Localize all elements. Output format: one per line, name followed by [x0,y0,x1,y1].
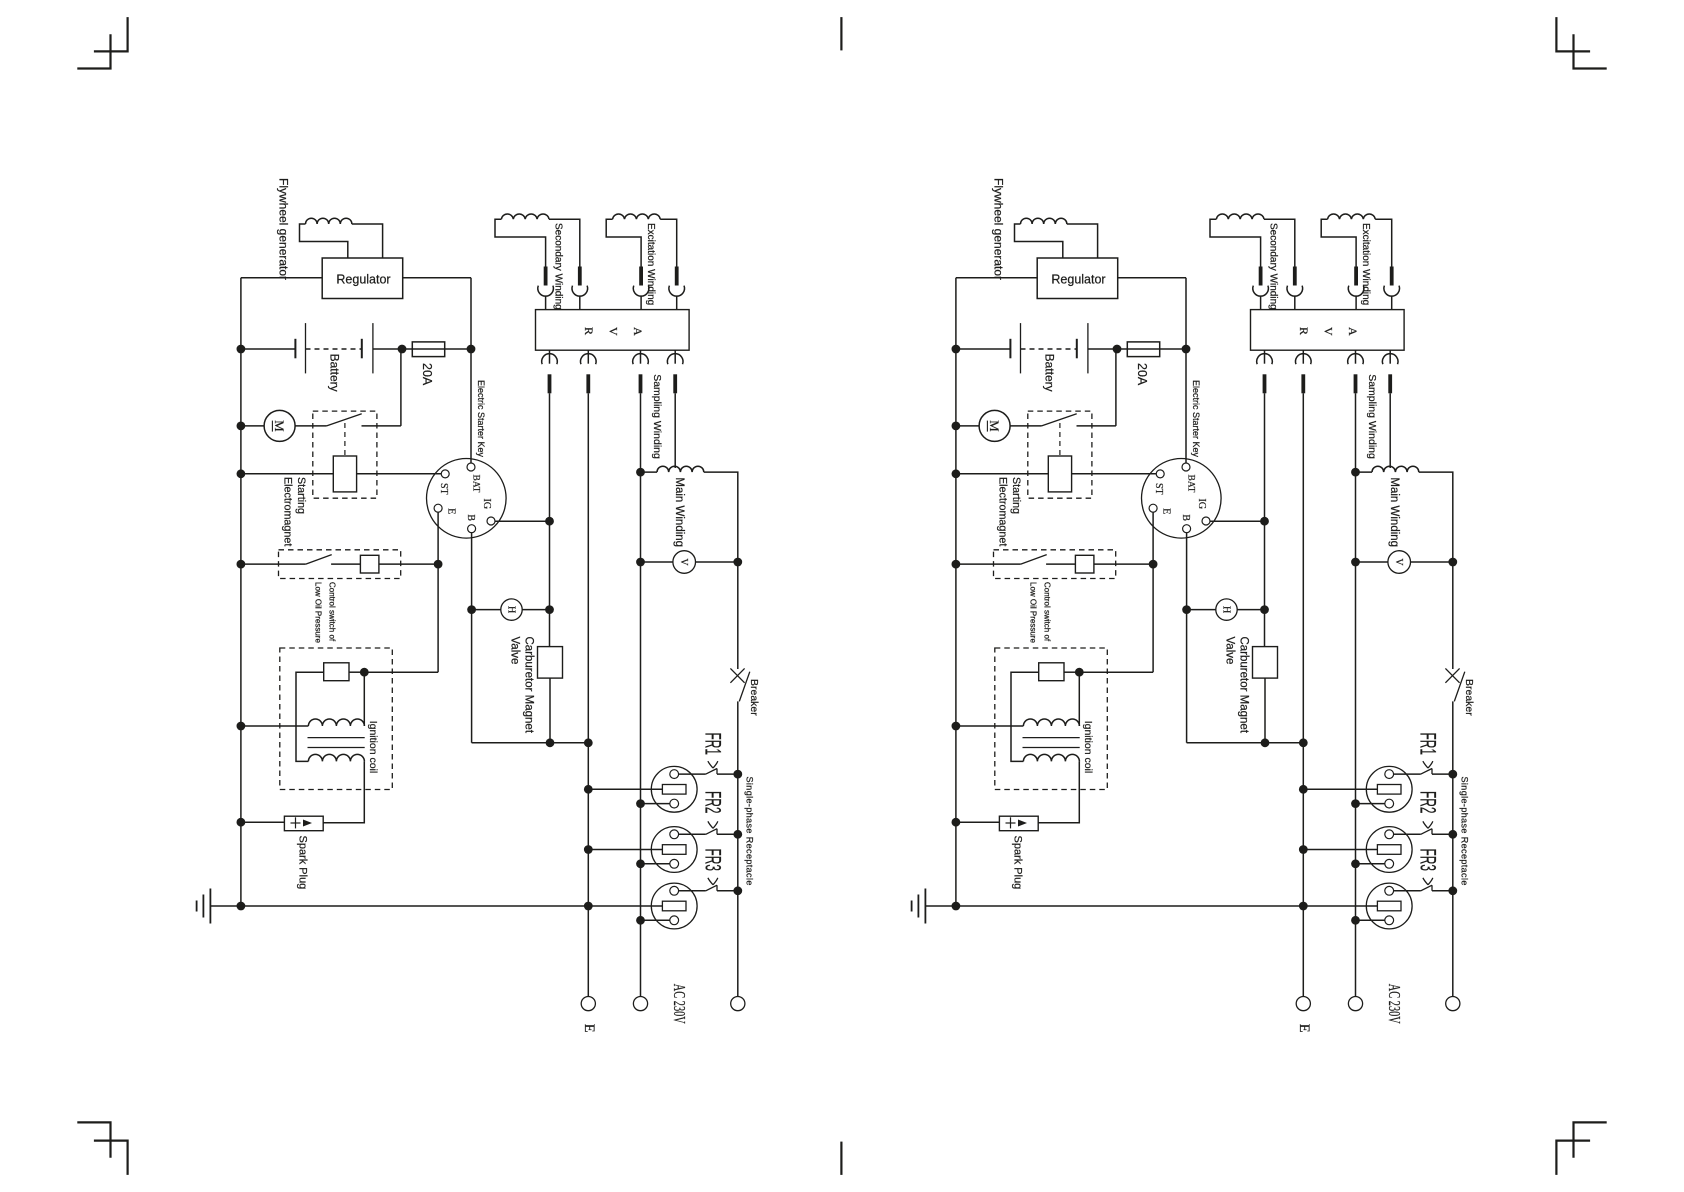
receptacle X1 top pin (left) [670,770,679,779]
svg-text:R: R [1297,327,1311,335]
connector pin J1b (right) [1293,267,1297,286]
wire: FR3 to bus (left) [717,890,738,892]
key terminal IG (left) [487,517,495,525]
svg-text:Battery: Battery [1043,354,1057,392]
wire: bus to relay coil (left) [241,473,333,475]
svg-text:Electromagnet: Electromagnet [281,477,293,546]
junction: neutral/X1 node (right) [1351,799,1360,808]
key terminal B (right) [1183,525,1191,533]
junction: condenser/primary node (right) [1075,668,1084,677]
connector pin J3b (right) [1301,374,1305,393]
receptacle X2 slot pin (right) [1377,845,1401,855]
junction: valve/rail node (left) [546,738,555,747]
fuse F1 20A (right) [1127,342,1159,357]
receptacle X2 body (left) [651,827,697,873]
wire: ground rail (right) [925,905,1377,907]
connector socket J3c (right) [1348,354,1364,365]
receptacle X2 bottom pin (right) [1385,859,1394,868]
wire: oil switch to sensor box (right) [1046,563,1075,565]
svg-text:Electric Starter Key: Electric Starter Key [1191,380,1201,458]
connector socket J3b (right) [1296,354,1312,365]
junction: bus/ground row (right) [952,902,961,911]
connector socket J1b (left) [572,286,588,297]
wire: sampling tap vertical (right) [1389,393,1391,468]
wire: AVR to J3a (right) [1264,350,1266,364]
inductor L3 main winding coil (right) [1372,466,1419,472]
thermal contact FR1 fork (left) [708,761,718,768]
receptacle X3 top pin (left) [670,886,679,895]
svg-text:Control switch of: Control switch of [328,582,337,642]
label: M motor (right) [987,420,1002,432]
connector pin J2a (left) [639,267,643,286]
wire: FR2 to bus (left) [717,833,738,835]
starting electromagnet K1 dashed enclosure (left) [313,411,377,498]
thermal contact FR2 blade (left) [706,829,717,835]
wire: bus to starter motor (right) [956,425,979,427]
wire: H right (right) [1237,609,1264,611]
relay K1 coil box (left) [333,456,356,492]
wire: AVR to J3b (left) [587,350,589,364]
wire: excitation coil right lead (left) [660,219,677,266]
junction: neutral/X3 node (right) [1351,916,1360,925]
transformer T2 primary winding (right) [1023,719,1079,726]
wire: excitation coil right lead (right) [1375,219,1392,266]
receptacle X3 body (left) [651,883,697,929]
junction: neutral/X2 node (left) [636,859,645,868]
breaker S3 blade (left) [739,672,750,702]
svg-text:H: H [1221,606,1232,613]
wire: condenser right lead (right) [1064,671,1079,673]
wire: FR1 to bus (right) [1432,773,1453,775]
crop mark bottom-right [1556,1141,1590,1175]
junction: neutral/X2 node (right) [1351,859,1360,868]
wire: regulator left to bus (left) [241,277,322,279]
wire: B terminal drop (right) [1186,532,1188,743]
relay K1 coil box (right) [1048,456,1071,492]
terminal N circle (left) [633,997,647,1011]
junction: V left node (right) [1351,558,1360,567]
connector socket J3b (left) [581,354,597,365]
svg-text:M: M [272,420,287,432]
junction: sense/X2 node (left) [584,845,593,854]
junction: sense/ground node (left) [584,902,593,911]
receptacle X1 bottom pin (right) [1385,799,1394,808]
wire: bus to ignition primary (left) [241,725,309,727]
inductor T1 flywheel generator coil (left) [306,218,352,224]
svg-text:FR1: FR1 [1415,733,1440,756]
wire: secondary to spark plug (left) [323,761,364,822]
svg-text:FR3: FR3 [700,849,725,872]
AVR U2 box (left) [536,310,690,351]
voltmeter V1 circle (right) [1388,551,1411,574]
svg-text:Single-phase Receptacle: Single-phase Receptacle [745,777,755,886]
junction: FR3/bus node (right) [1448,886,1457,895]
svg-text:Main Winding: Main Winding [1388,477,1400,547]
svg-text:Electric Starter Key: Electric Starter Key [476,380,486,458]
wire: H left (left) [472,609,501,611]
wire: main winding left stub (right) [1356,471,1373,473]
wire: right vertical to BAT terminal (left) [470,278,472,464]
svg-text:FR3: FR3 [1415,849,1440,872]
spark plug gap electrode (left) [291,817,313,828]
svg-text:FR2: FR2 [700,791,725,814]
receptacle X3 slot pin (right) [1377,901,1401,911]
connector pin J3d (right) [1388,374,1392,393]
receptacle X2 bottom pin (left) [670,859,679,868]
connector pin J1a (right) [1259,267,1263,286]
wire: regulator right (left) [403,277,471,279]
crop mark top-right [1556,17,1590,51]
connector socket J1a (right) [1253,286,1269,297]
wire: AVR to J3d (right) [1389,350,1391,364]
starting electromagnet K1 dashed enclosure (right) [1028,411,1092,498]
thermal contact FR3 fork (right) [1423,878,1433,885]
connector pin J3d (left) [673,374,677,393]
svg-text:Secondary Winding: Secondary Winding [553,223,564,310]
crop mark top-center [840,17,842,50]
connector pin J3c (left) [639,374,643,393]
svg-text:Carburetor Magnet: Carburetor Magnet [1238,637,1250,734]
svg-text:Carburetor Magnet: Carburetor Magnet [523,637,535,734]
wire: bus to battery (left) [241,348,296,350]
wire: motor to relay contact (left) [295,425,327,427]
wire: battery to fuse node (right) [1088,348,1127,350]
wire: bus to relay coil (right) [956,473,1048,475]
svg-text:E: E [581,1024,597,1033]
wire: fuse to key node (right) [1160,348,1186,350]
svg-text:ST: ST [438,483,449,495]
junction: main winding left node (right) [1351,468,1360,477]
wire: neutral to X2 (left) [641,863,670,865]
wire: left bus vertical (left) [240,278,242,906]
connector socket J2b (left) [669,286,685,297]
wire: lower pin vertical (right) [1355,393,1357,996]
connector pin J1a (left) [544,267,548,286]
junction: neutral/X1 node (left) [636,799,645,808]
junction: bus/oil row (right) [952,560,961,569]
junction: rail/sense node (right) [1299,738,1308,747]
thermal contact FR2 fork (left) [708,821,718,828]
thermal contact FR3 blade (left) [706,885,717,891]
voltmeter V1 circle (left) [673,551,696,574]
wire: secondary coil left lead (right) [1210,219,1261,266]
junction: IG node (left) [545,517,554,526]
carburetor magnet valve Y1 box (right) [1253,647,1278,679]
junction: FR2/bus node (right) [1448,830,1457,839]
breaker S3 blade (right) [1454,672,1465,702]
svg-text:AC 230V: AC 230V [1385,984,1404,1024]
spark plug gap electrode (right) [1006,817,1028,828]
junction: fuse/BAT node (right) [1182,345,1191,354]
key terminal E (right) [1149,504,1157,512]
wire: condenser to primary (left) [363,672,365,726]
wire: neutral to X3 (left) [641,919,670,921]
wire: bus to spark plug (right) [956,821,1000,823]
receptacle X1 slot pin (left) [662,785,686,795]
svg-text:B: B [465,514,476,521]
junction: sense/ground node (right) [1299,902,1308,911]
wire: relay coil to ST terminal (left) [357,473,442,475]
svg-text:B: B [1180,514,1191,521]
wire: sense to X2 slot (right) [1303,849,1377,851]
oil switch S2 blade (right) [1021,555,1047,565]
junction: E/oil node (right) [1149,560,1158,569]
wire: battery dashed middle (right) [1021,348,1077,350]
junction: FR2/bus node (left) [733,830,742,839]
wire: battery to fuse node (left) [373,348,412,350]
wire: valve bottom lead (left) [549,678,551,743]
wire: V left (left) [641,561,673,563]
connector socket J3a (right) [1257,354,1273,365]
transformer T2 core (left) [308,738,365,748]
wire: riser to battery node (left) [400,349,402,426]
wire: sense vertical (left) [587,393,589,996]
connector socket J1b (right) [1287,286,1303,297]
connector socket J3d (left) [667,354,683,365]
wire: relay contact to riser (right) [1077,425,1116,427]
terminal L circle (left) [731,997,745,1011]
wire: neutral to X1 (left) [641,803,670,805]
junction: IG node (right) [1260,517,1269,526]
svg-text:Ignition coil: Ignition coil [1082,721,1094,774]
battery BT1 cell1 short plate (left) [294,339,296,359]
wire: V right (left) [696,561,738,563]
wire: bus to spark plug (left) [241,821,285,823]
wire: engine stop rail (right) [1187,742,1304,744]
wire: H right (left) [522,609,549,611]
connector socket J3c (left) [633,354,649,365]
wire: to ignition condenser (right) [1079,671,1153,673]
connector pin J2a (right) [1354,267,1358,286]
junction: condenser/primary node (left) [360,668,369,677]
wire: sense to X2 slot (left) [588,849,662,851]
wire: fuse to key node (left) [445,348,471,350]
svg-text:V: V [1322,327,1336,336]
wire: neutral to X1 (right) [1356,803,1385,805]
wire: engine stop rail (left) [472,742,589,744]
inductor L3 main winding coil (left) [657,466,704,472]
svg-text:IG: IG [1196,499,1207,510]
junction: sense/X1 node (left) [584,785,593,794]
wire: motor to relay contact (right) [1010,425,1042,427]
wire: V right (right) [1411,561,1453,563]
key terminal E (left) [434,504,442,512]
wire: generator coil right lead (left) [352,224,383,258]
junction: FR1/bus node (right) [1448,770,1457,779]
wire: sense to X1 slot (right) [1303,788,1377,790]
low oil pressure dashed enclosure (left) [279,550,401,579]
wire: generator coil right lead (right) [1067,224,1098,258]
junction: sense/X1 node (right) [1299,785,1308,794]
relay K1 actuation link (right) [1059,423,1061,456]
svg-text:V: V [1393,558,1404,566]
connector pin J3a (left) [548,374,552,393]
low oil pressure dashed enclosure (right) [994,550,1116,579]
junction: bus/ignition row (left) [237,722,246,731]
receptacle X3 bottom pin (right) [1385,916,1394,925]
svg-text:Flywheel generator: Flywheel generator [992,178,1006,280]
connector socket J3d (right) [1382,354,1398,365]
thermal contact FR1 blade (left) [706,769,717,775]
oil pressure sensor box (right) [1075,555,1094,573]
wire: X2 to FR2 (left) [679,833,706,835]
wire: J2b to AVR (right) [1391,296,1393,310]
battery BT1 cell2 short plate (left) [361,339,363,359]
indicator H1 circle (left) [501,599,522,620]
wire: main winding to breaker bus (left) [704,472,738,669]
svg-text:Main Winding: Main Winding [673,477,685,547]
battery BT1 cell1 long plate (left) [305,323,307,373]
terminal E circle (right) [1296,997,1310,1011]
connector pin J1b (left) [578,267,582,286]
battery BT1 cell2 long plate (left) [372,323,374,373]
wire: FR3 to bus (right) [1432,890,1453,892]
wire: sensor to E-node (right) [1094,563,1153,565]
wire: bus to ignition primary (right) [956,725,1024,727]
junction: sense/X2 node (right) [1299,845,1308,854]
wire: X3 to FR3 (left) [679,890,706,892]
junction: bus/ground row (left) [237,902,246,911]
wire: J1a to AVR (right) [1260,296,1262,310]
svg-text:FR2: FR2 [1415,791,1440,814]
svg-text:BAT: BAT [1186,475,1196,493]
wire: IG terminal link (right) [1210,520,1265,522]
key terminal IG (right) [1202,517,1210,525]
junction: valve/H node (right) [1260,605,1269,614]
junction: bus/battery row (left) [237,345,246,354]
junction: fuse/BAT node (left) [467,345,476,354]
svg-text:V: V [607,327,621,336]
wire: secondary to spark plug (right) [1038,761,1079,822]
junction: main winding left node (left) [636,468,645,477]
wire: J2a to AVR (right) [1355,296,1357,310]
svg-text:Sampling Winding: Sampling Winding [1366,374,1378,459]
svg-text:A: A [1346,327,1360,336]
wire: AVR to J3b (right) [1302,350,1304,364]
wire: IG feed vertical (right) [1264,393,1266,646]
svg-text:R: R [582,327,596,335]
wire: secondary coil left lead (left) [495,219,546,266]
junction: E/oil node (left) [434,560,443,569]
thermal contact FR3 fork (left) [708,878,718,885]
junction: B/H node (right) [1182,605,1191,614]
wire: neutral to X3 (right) [1356,919,1385,921]
wire: E terminal drop (left) [437,512,439,564]
regulator U1 box (right) [1037,258,1118,299]
junction: bus/oil row (left) [237,560,246,569]
connector pin J3a (right) [1263,374,1267,393]
battery BT1 cell1 short plate (right) [1009,339,1011,359]
wire: ground rail (left) [210,905,662,907]
svg-text:Starting: Starting [295,477,307,514]
wire: battery dashed middle (left) [306,348,362,350]
crop mark bottom-center [840,1142,842,1175]
key terminal BAT (left) [467,463,475,471]
receptacle X2 top pin (right) [1385,830,1394,839]
thermal contact FR1 blade (right) [1421,769,1432,775]
wire: sense vertical (right) [1302,393,1304,996]
condenser C1 box (left) [324,663,349,681]
wire: left bus vertical (right) [955,278,957,906]
wire: FR1 to bus (left) [717,773,738,775]
receptacle X1 body (right) [1366,766,1412,812]
wire: valve bottom lead (right) [1264,678,1266,743]
svg-text:Secondary Winding: Secondary Winding [1268,223,1279,310]
junction: valve/H node (left) [545,605,554,614]
thermal contact FR1 fork (right) [1423,761,1433,768]
svg-text:E: E [1161,508,1172,514]
svg-text:Spark Plug: Spark Plug [1012,836,1024,890]
breaker S3 cross mark (right) [1445,668,1459,682]
svg-text:Breaker: Breaker [1463,679,1475,716]
wire: right vertical to BAT terminal (right) [1185,278,1187,464]
transformer T2 secondary winding (right) [1023,754,1079,761]
thermal contact FR2 blade (right) [1421,829,1432,835]
svg-text:Spark Plug: Spark Plug [297,836,309,890]
receptacle X2 top pin (left) [670,830,679,839]
receptacle X3 body (right) [1366,883,1412,929]
receptacle X1 top pin (right) [1385,770,1394,779]
ground symbol (left) [197,889,211,924]
receptacle X3 top pin (right) [1385,886,1394,895]
connector socket J2b (right) [1384,286,1400,297]
relay K1 contact blade (right) [1042,414,1077,426]
key terminal ST (left) [441,470,449,478]
svg-text:Single-phase Receptacle: Single-phase Receptacle [1460,777,1470,886]
junction: valve/rail node (right) [1261,738,1270,747]
inductor L1 secondary winding coil (left) [501,214,549,219]
wire: X2 to FR2 (right) [1394,833,1421,835]
wire: condenser left lead (right) [1011,672,1039,761]
svg-text:BAT: BAT [471,475,481,493]
relay K1 actuation link (left) [344,423,346,456]
breaker S3 cross mark (left) [730,668,744,682]
receptacle X1 slot pin (right) [1377,785,1401,795]
junction: bus/battery row (right) [952,345,961,354]
svg-text:Valve: Valve [509,637,521,665]
oil switch S2 blade (left) [306,555,332,565]
transformer T2 core (right) [1023,738,1080,748]
connector socket J3a (left) [542,354,558,365]
junction: bus/motor row (left) [237,422,246,431]
wire: excitation coil left lead (left) [606,219,641,266]
terminal L circle (right) [1446,997,1460,1011]
wire: E vertical to ignition (right) [1152,564,1154,672]
junction: bus/motor row (right) [952,422,961,431]
svg-text:Regulator: Regulator [336,273,390,287]
wire: B terminal drop (left) [471,532,473,743]
svg-text:M: M [987,420,1002,432]
svg-text:20A: 20A [1135,363,1149,386]
svg-text:Battery: Battery [328,354,342,392]
wire: excitation coil left lead (right) [1321,219,1356,266]
wire: IG feed vertical (left) [549,393,551,646]
wire: AVR to J3c (right) [1355,350,1357,364]
wire: X1 to FR1 (left) [679,773,706,775]
wire: lower pin vertical (left) [640,393,642,996]
fuse F1 20A (left) [412,342,444,357]
svg-text:H: H [506,606,517,613]
wire: secondary coil right lead (left) [549,219,580,266]
wire: H left (right) [1187,609,1216,611]
connector socket J1a (left) [538,286,554,297]
receptacle X1 body (left) [651,766,697,812]
battery BT1 cell2 short plate (right) [1076,339,1078,359]
svg-text:20A: 20A [420,363,434,386]
wire: condenser to primary (right) [1078,672,1080,726]
label: M motor (left) [272,420,287,432]
connector pin J2b (left) [675,267,679,286]
